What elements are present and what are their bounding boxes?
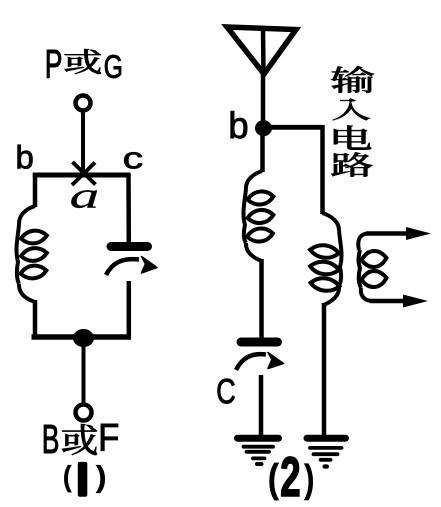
capacitor C1 curved plate with arrow bbox=[106, 257, 157, 276]
junction dot bottom bbox=[73, 329, 94, 347]
inductor L1 bbox=[16, 206, 47, 302]
label G bbox=[105, 55, 121, 78]
wire antenna to node b bbox=[261, 74, 266, 130]
wire right top segment (c to capacitor) bbox=[126, 173, 131, 242]
wire top b-c bbox=[33, 173, 130, 178]
label P (terminal P or G) bbox=[47, 50, 61, 78]
label b bbox=[18, 145, 33, 169]
wire right branch down bbox=[320, 125, 325, 214]
label C bbox=[218, 379, 235, 404]
capacitor C curved plate with arrow bbox=[236, 353, 284, 371]
label c bbox=[124, 152, 142, 168]
output coil winding bbox=[358, 234, 387, 302]
label a bbox=[71, 190, 97, 208]
caption (1) bbox=[64, 462, 104, 497]
ground left bbox=[238, 438, 279, 464]
node b junction dot bbox=[255, 120, 272, 136]
capacitor C top plate bbox=[237, 338, 283, 347]
terminal circle B/F bbox=[76, 405, 92, 421]
label 输 (input circuit) bbox=[331, 66, 374, 93]
output coil top arrow bbox=[366, 227, 431, 240]
wire terminal to node a bbox=[81, 112, 85, 172]
label b (circuit 2) bbox=[231, 111, 247, 138]
label 入 bbox=[333, 99, 370, 121]
output coil bottom arrow bbox=[370, 295, 428, 308]
label 电 bbox=[334, 125, 371, 149]
caption (2) bbox=[270, 457, 313, 500]
label F bbox=[101, 424, 118, 451]
wire capacitor to ground bbox=[259, 375, 264, 438]
inductor L2 primary bbox=[243, 171, 274, 261]
wire node b to right branch bbox=[264, 125, 323, 130]
wire L2 to capacitor C bbox=[259, 259, 264, 338]
antenna bbox=[227, 27, 296, 76]
node a X mark bbox=[72, 162, 96, 185]
wire node b down bbox=[260, 128, 265, 172]
wire junction to terminal B/F bbox=[82, 345, 86, 403]
label 或 (P or G) bbox=[64, 49, 100, 74]
label B bbox=[44, 425, 58, 453]
wire L3 to ground bbox=[322, 303, 327, 437]
inductor L3 (coupled antenna coil) bbox=[309, 213, 341, 305]
wire right bottom segment bbox=[127, 281, 132, 339]
ground right bbox=[307, 438, 346, 466]
wire left bottom segment bbox=[33, 300, 38, 339]
label 或 (B or F) bbox=[62, 424, 97, 455]
capacitor C1 top plate bbox=[107, 242, 153, 251]
wire bottom bbox=[32, 334, 132, 340]
terminal circle P/G bbox=[76, 96, 91, 111]
label 路 bbox=[331, 152, 372, 176]
wire left top segment bbox=[33, 173, 38, 207]
